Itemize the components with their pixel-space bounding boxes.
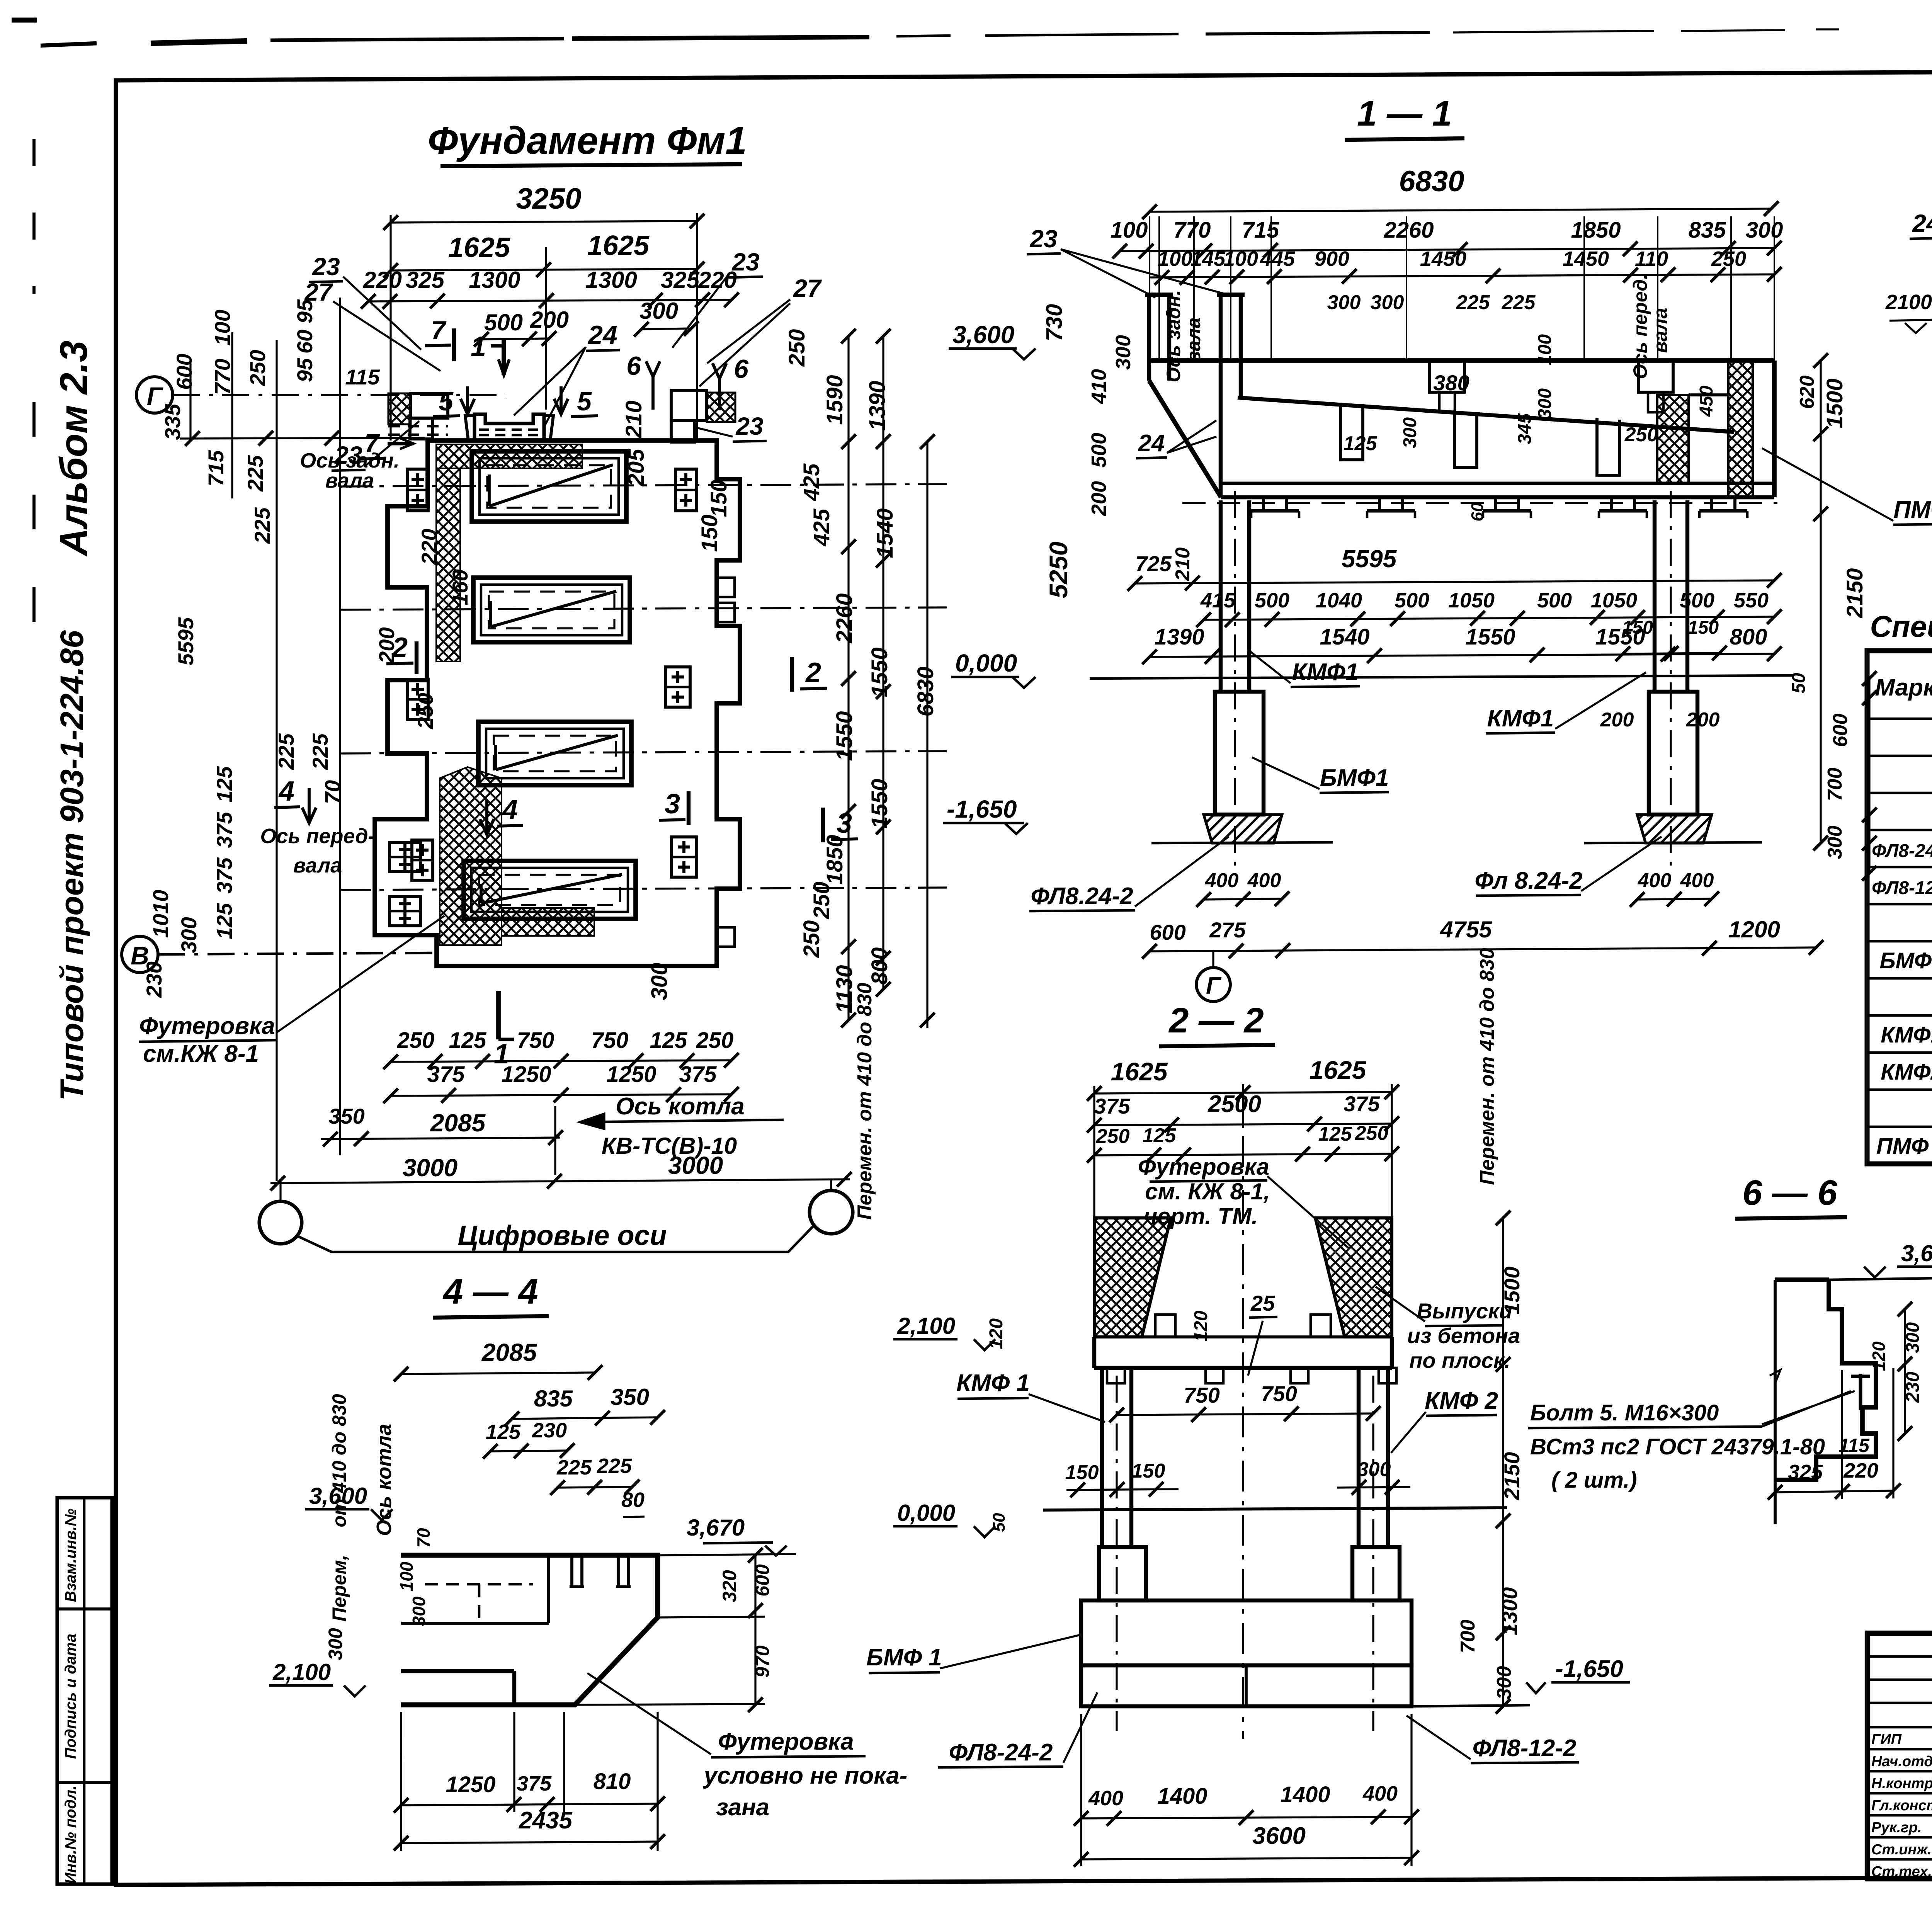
svg-text:115: 115 xyxy=(1838,1435,1870,1456)
svg-text:800: 800 xyxy=(867,947,892,985)
svg-text:125: 125 xyxy=(650,1028,688,1053)
svg-text:300: 300 xyxy=(1357,1458,1391,1481)
svg-text:375: 375 xyxy=(427,1062,465,1087)
svg-text:725: 725 xyxy=(1135,551,1172,576)
svg-text:23: 23 xyxy=(312,253,340,281)
svg-text:( 2 шт.): ( 2 шт.) xyxy=(1551,1468,1637,1493)
svg-text:375: 375 xyxy=(212,811,236,848)
svg-text:60: 60 xyxy=(293,330,317,354)
svg-text:ФЛ8-24-2: ФЛ8-24-2 xyxy=(1872,841,1932,861)
svg-text:1625: 1625 xyxy=(1310,1056,1367,1084)
svg-text:КМФ2: КМФ2 xyxy=(1881,1060,1932,1085)
svg-text:см.КЖ 8-1: см.КЖ 8-1 xyxy=(143,1041,259,1067)
svg-text:6 — 6: 6 — 6 xyxy=(1742,1173,1837,1213)
svg-text:Ст.тех.: Ст.тех. xyxy=(1871,1864,1932,1880)
svg-text:Футеровка: Футеровка xyxy=(139,1013,275,1039)
svg-text:зана: зана xyxy=(716,1794,769,1821)
svg-text:1040: 1040 xyxy=(1316,589,1362,612)
svg-text:Нач.отд.: Нач.отд. xyxy=(1871,1753,1932,1770)
svg-text:125: 125 xyxy=(1344,432,1378,455)
svg-text:350: 350 xyxy=(328,1104,364,1128)
svg-text:1: 1 xyxy=(471,331,486,362)
svg-text:Ось перед.: Ось перед. xyxy=(1629,274,1651,379)
svg-text:2,100: 2,100 xyxy=(897,1313,955,1339)
svg-text:60: 60 xyxy=(1468,502,1487,521)
svg-text:1590: 1590 xyxy=(822,375,847,425)
svg-text:225: 225 xyxy=(1456,291,1490,314)
svg-text:1050: 1050 xyxy=(1591,589,1637,612)
svg-text:4: 4 xyxy=(502,794,518,825)
svg-text:3,670: 3,670 xyxy=(687,1515,745,1541)
svg-text:24: 24 xyxy=(587,320,617,350)
svg-text:5595: 5595 xyxy=(173,617,198,665)
svg-text:ПМФ 1: ПМФ 1 xyxy=(1876,1134,1932,1159)
svg-text:6830: 6830 xyxy=(1399,165,1464,198)
svg-text:220: 220 xyxy=(1843,1459,1878,1482)
svg-text:715: 715 xyxy=(1242,218,1280,243)
svg-text:2260: 2260 xyxy=(832,593,857,643)
svg-text:300: 300 xyxy=(1400,417,1420,448)
svg-text:425: 425 xyxy=(799,463,824,502)
svg-text:Ось перед-: Ось перед- xyxy=(260,825,375,848)
svg-text:120: 120 xyxy=(986,1318,1007,1349)
svg-text:250: 250 xyxy=(784,329,810,367)
svg-text:БМФ 1: БМФ 1 xyxy=(866,1644,942,1671)
svg-text:250: 250 xyxy=(696,1028,734,1053)
svg-text:6830: 6830 xyxy=(913,667,938,716)
svg-text:0,000: 0,000 xyxy=(897,1500,955,1526)
svg-text:300: 300 xyxy=(177,917,201,953)
svg-text:300: 300 xyxy=(1327,291,1361,314)
svg-text:Фундамент Фм1: Фундамент Фм1 xyxy=(428,119,747,162)
svg-text:550: 550 xyxy=(1734,589,1769,612)
svg-text:1250: 1250 xyxy=(446,1772,495,1797)
svg-text:300: 300 xyxy=(639,298,678,324)
svg-text:1450: 1450 xyxy=(1563,247,1609,270)
svg-text:-1,650: -1,650 xyxy=(947,795,1017,823)
svg-text:250: 250 xyxy=(1711,247,1746,270)
svg-text:120: 120 xyxy=(1869,1341,1889,1371)
svg-text:Инв.№ подл.: Инв.№ подл. xyxy=(62,1786,79,1884)
svg-text:ФЛ8-12-2: ФЛ8-12-2 xyxy=(1473,1735,1577,1762)
svg-text:275: 275 xyxy=(1209,918,1246,942)
svg-text:6: 6 xyxy=(734,354,749,384)
svg-text:345: 345 xyxy=(1515,413,1535,444)
svg-text:КМФ1: КМФ1 xyxy=(1487,705,1554,732)
svg-text:205: 205 xyxy=(624,449,649,487)
svg-text:1390: 1390 xyxy=(865,381,890,430)
svg-text:ФЛ8.24-2: ФЛ8.24-2 xyxy=(1031,883,1133,910)
svg-text:200: 200 xyxy=(1087,481,1111,516)
svg-text:750: 750 xyxy=(1184,1383,1219,1407)
svg-text:250: 250 xyxy=(1355,1122,1389,1145)
svg-text:250: 250 xyxy=(1096,1125,1130,1148)
svg-text:100: 100 xyxy=(210,310,235,345)
svg-text:100: 100 xyxy=(1535,334,1555,365)
svg-text:2: 2 xyxy=(805,657,821,688)
svg-text:200: 200 xyxy=(1686,709,1720,731)
svg-text:225: 225 xyxy=(243,455,267,492)
svg-text:КМФ 1: КМФ 1 xyxy=(956,1370,1030,1396)
svg-text:500: 500 xyxy=(1255,589,1289,612)
svg-text:810: 810 xyxy=(594,1769,631,1794)
svg-text:415: 415 xyxy=(1200,589,1236,612)
svg-text:Н.контр.: Н.контр. xyxy=(1871,1776,1932,1792)
svg-text:6: 6 xyxy=(626,351,641,381)
svg-text:425: 425 xyxy=(809,509,834,547)
svg-text:125: 125 xyxy=(449,1028,487,1053)
svg-text:7: 7 xyxy=(431,316,447,345)
svg-text:3,600: 3,600 xyxy=(1901,1240,1932,1266)
svg-text:1250: 1250 xyxy=(606,1062,656,1087)
svg-text:1550: 1550 xyxy=(867,647,892,697)
svg-text:Футеровка: Футеровка xyxy=(718,1728,854,1755)
svg-text:300: 300 xyxy=(1535,388,1555,419)
svg-text:50: 50 xyxy=(990,1513,1009,1532)
svg-text:вала: вала xyxy=(293,854,342,877)
svg-text:700: 700 xyxy=(1457,1620,1479,1653)
svg-text:3: 3 xyxy=(665,789,680,820)
svg-text:1850: 1850 xyxy=(1571,218,1621,243)
svg-text:250: 250 xyxy=(397,1028,435,1053)
svg-text:150: 150 xyxy=(1065,1461,1099,1484)
svg-text:1250: 1250 xyxy=(501,1062,551,1087)
svg-text:100: 100 xyxy=(1158,247,1192,270)
svg-text:200: 200 xyxy=(530,307,569,333)
svg-text:Цифровые оси: Цифровые оси xyxy=(457,1220,667,1251)
svg-text:230: 230 xyxy=(532,1419,567,1442)
svg-text:125: 125 xyxy=(212,903,236,939)
svg-text:1010: 1010 xyxy=(148,890,173,938)
svg-text:Ось задн.: Ось задн. xyxy=(300,449,400,472)
svg-text:2500: 2500 xyxy=(1207,1091,1261,1117)
svg-text:2: 2 xyxy=(391,632,408,663)
svg-text:100: 100 xyxy=(1223,247,1258,270)
svg-text:1300: 1300 xyxy=(585,267,637,293)
svg-text:500: 500 xyxy=(484,310,523,335)
svg-text:400: 400 xyxy=(1205,869,1239,892)
svg-text:500: 500 xyxy=(1680,589,1714,612)
svg-text:100: 100 xyxy=(1111,218,1148,243)
svg-text:1625: 1625 xyxy=(1111,1057,1168,1086)
svg-text:150: 150 xyxy=(1132,1460,1165,1482)
svg-text:500: 500 xyxy=(1395,589,1429,612)
svg-text:БМФ1: БМФ1 xyxy=(1320,765,1389,791)
svg-text:400: 400 xyxy=(1362,1782,1398,1805)
svg-text:ГИП: ГИП xyxy=(1871,1731,1902,1748)
svg-text:300: 300 xyxy=(1824,826,1846,859)
svg-text:ФЛ8-12-2: ФЛ8-12-2 xyxy=(1872,878,1932,898)
svg-text:3,600: 3,600 xyxy=(952,321,1014,349)
svg-text:Г: Г xyxy=(147,382,163,410)
svg-text:110: 110 xyxy=(1635,247,1668,270)
svg-text:1500: 1500 xyxy=(1822,378,1847,428)
svg-text:50: 50 xyxy=(1789,673,1809,694)
svg-text:500: 500 xyxy=(1537,589,1572,612)
svg-text:750: 750 xyxy=(591,1028,629,1053)
svg-text:70: 70 xyxy=(413,1528,434,1548)
svg-text:24: 24 xyxy=(1138,430,1165,457)
svg-text:1400: 1400 xyxy=(1157,1784,1207,1809)
svg-text:3600: 3600 xyxy=(1252,1823,1306,1849)
svg-text:1625: 1625 xyxy=(587,230,650,261)
svg-text:600: 600 xyxy=(1829,714,1852,747)
svg-text:КМФ1: КМФ1 xyxy=(1881,1022,1932,1048)
svg-text:750: 750 xyxy=(1261,1381,1297,1406)
svg-text:КВ-ТС(В)-10: КВ-ТС(В)-10 xyxy=(602,1133,737,1159)
svg-text:2150: 2150 xyxy=(1842,568,1867,618)
svg-text:300: 300 xyxy=(1112,335,1135,370)
svg-text:750: 750 xyxy=(517,1028,554,1053)
svg-text:835: 835 xyxy=(534,1386,573,1412)
svg-text:БМФ1: БМФ1 xyxy=(1880,948,1932,973)
svg-text:1050: 1050 xyxy=(1448,589,1495,612)
svg-text:4: 4 xyxy=(278,776,294,807)
svg-text:Ось котла: Ось котла xyxy=(616,1093,744,1120)
svg-text:250: 250 xyxy=(799,920,824,958)
svg-text:400: 400 xyxy=(1638,869,1672,892)
svg-text:150: 150 xyxy=(1688,617,1719,638)
svg-text:5250: 5250 xyxy=(1044,541,1073,598)
svg-text:Фл 8.24-2: Фл 8.24-2 xyxy=(1475,867,1582,894)
svg-text:300: 300 xyxy=(325,1628,346,1660)
svg-text:835: 835 xyxy=(1689,218,1726,243)
svg-text:3: 3 xyxy=(837,808,852,839)
svg-text:115: 115 xyxy=(345,365,380,389)
svg-text:1540: 1540 xyxy=(1320,624,1369,650)
svg-text:Подпись и дата: Подпись и дата xyxy=(62,1634,79,1759)
svg-text:Марка: Марка xyxy=(1875,674,1932,701)
svg-text:27: 27 xyxy=(793,274,822,302)
svg-text:145: 145 xyxy=(1190,247,1226,270)
svg-text:3000: 3000 xyxy=(403,1154,457,1182)
svg-text:0,000: 0,000 xyxy=(955,649,1017,677)
svg-text:325: 325 xyxy=(661,267,700,293)
svg-text:375: 375 xyxy=(679,1062,717,1087)
svg-text:2100: 2100 xyxy=(1885,291,1932,314)
svg-text:100: 100 xyxy=(396,1561,417,1591)
svg-text:2085: 2085 xyxy=(481,1338,537,1366)
svg-text:250: 250 xyxy=(809,882,834,920)
svg-text:400: 400 xyxy=(1680,869,1714,892)
svg-text:по плоск.: по плоск. xyxy=(1409,1348,1510,1372)
svg-text:КМФ1: КМФ1 xyxy=(1292,659,1359,685)
svg-text:ПМФ1: ПМФ1 xyxy=(1893,497,1932,523)
svg-text:1550: 1550 xyxy=(867,779,892,828)
svg-text:375: 375 xyxy=(1094,1094,1130,1118)
svg-text:1200: 1200 xyxy=(1728,917,1780,942)
svg-text:Перемен. от 410 до 830: Перемен. от 410 до 830 xyxy=(1476,948,1498,1185)
svg-text:300: 300 xyxy=(1371,291,1404,314)
svg-text:1390: 1390 xyxy=(1154,624,1204,650)
svg-text:1550: 1550 xyxy=(1465,624,1515,650)
svg-text:Болт 5. М16×300: Болт 5. М16×300 xyxy=(1530,1400,1719,1425)
svg-text:400: 400 xyxy=(1088,1787,1123,1810)
svg-text:1 — 1: 1 — 1 xyxy=(1357,94,1452,133)
svg-text:23: 23 xyxy=(735,412,763,440)
svg-text:Типовой проект 903-1-224.86: Типовой проект 903-1-224.86 xyxy=(54,630,90,1101)
svg-text:95: 95 xyxy=(293,358,317,382)
svg-text:1550: 1550 xyxy=(832,711,857,761)
svg-text:1400: 1400 xyxy=(1280,1782,1330,1807)
svg-text:120: 120 xyxy=(1191,1311,1211,1342)
svg-text:Взам.инв.№: Взам.инв.№ xyxy=(62,1509,79,1602)
svg-text:125: 125 xyxy=(1143,1124,1177,1147)
svg-text:225: 225 xyxy=(556,1456,592,1479)
svg-text:400: 400 xyxy=(1247,869,1281,892)
svg-text:Г: Г xyxy=(1206,973,1222,999)
svg-text:КМФ 2: КМФ 2 xyxy=(1425,1388,1498,1414)
svg-text:ВСт3 пс2 ГОСТ 24379.1-80: ВСт3 пс2 ГОСТ 24379.1-80 xyxy=(1530,1434,1825,1459)
svg-text:150: 150 xyxy=(1622,617,1653,638)
svg-text:Альбом 2.3: Альбом 2.3 xyxy=(52,340,95,557)
svg-text:600: 600 xyxy=(1150,920,1185,944)
svg-text:2,100: 2,100 xyxy=(272,1659,331,1685)
svg-text:1540: 1540 xyxy=(872,508,898,558)
svg-text:300: 300 xyxy=(1493,1666,1515,1700)
svg-text:715: 715 xyxy=(204,450,228,486)
svg-text:380: 380 xyxy=(1433,371,1469,395)
svg-text:350: 350 xyxy=(611,1384,649,1410)
svg-text:95: 95 xyxy=(293,299,317,323)
svg-text:1850: 1850 xyxy=(822,835,847,884)
svg-text:300: 300 xyxy=(1746,218,1783,243)
svg-text:225: 225 xyxy=(597,1454,632,1478)
svg-text:210: 210 xyxy=(621,401,646,439)
svg-text:250: 250 xyxy=(1624,423,1658,446)
svg-text:770: 770 xyxy=(210,359,235,395)
svg-text:300: 300 xyxy=(409,1596,429,1626)
svg-text:5: 5 xyxy=(577,387,592,416)
svg-text:225: 225 xyxy=(250,507,274,544)
svg-text:210: 210 xyxy=(1172,548,1194,582)
svg-text:Перем,: Перем, xyxy=(328,1555,350,1622)
svg-text:4 — 4: 4 — 4 xyxy=(442,1272,538,1311)
svg-text:125: 125 xyxy=(1318,1123,1352,1145)
svg-text:450: 450 xyxy=(1696,386,1717,417)
svg-text:вала: вала xyxy=(325,469,374,492)
svg-text:150: 150 xyxy=(697,515,722,552)
svg-text:Ст.инж.: Ст.инж. xyxy=(1871,1842,1932,1858)
svg-text:150: 150 xyxy=(706,480,731,517)
svg-text:770: 770 xyxy=(1173,218,1211,243)
svg-text:Рук.гр.: Рук.гр. xyxy=(1871,1820,1922,1836)
svg-text:730: 730 xyxy=(1042,304,1067,342)
svg-text:500: 500 xyxy=(1087,433,1111,468)
svg-text:800: 800 xyxy=(1730,624,1767,650)
svg-text:условно не пока-: условно не пока- xyxy=(703,1762,908,1789)
svg-text:3250: 3250 xyxy=(516,182,581,215)
svg-text:125: 125 xyxy=(486,1420,521,1444)
svg-text:Гл.конст.: Гл.конст. xyxy=(1871,1798,1932,1814)
svg-text:320: 320 xyxy=(719,1570,740,1602)
svg-text:-1,650: -1,650 xyxy=(1555,1656,1623,1682)
svg-text:220: 220 xyxy=(363,267,402,293)
svg-text:600: 600 xyxy=(172,354,196,389)
svg-text:375: 375 xyxy=(212,857,236,893)
svg-text:Футеровка: Футеровка xyxy=(1138,1154,1269,1180)
svg-text:вала: вала xyxy=(1650,308,1671,353)
svg-text:5595: 5595 xyxy=(1342,545,1397,573)
svg-text:250: 250 xyxy=(245,350,270,386)
svg-text:375: 375 xyxy=(1344,1092,1380,1116)
svg-text:23: 23 xyxy=(731,248,759,276)
svg-text:25: 25 xyxy=(1250,1291,1275,1315)
svg-text:4755: 4755 xyxy=(1440,917,1492,942)
svg-text:225: 225 xyxy=(308,733,332,770)
svg-text:225: 225 xyxy=(1502,291,1536,314)
svg-text:900: 900 xyxy=(1315,247,1349,270)
svg-text:445: 445 xyxy=(1260,247,1295,270)
svg-text:Перемен. от 410 до 830: Перемен. от 410 до 830 xyxy=(854,983,876,1220)
svg-text:Спецификация элементов на фунд: Спецификация элементов на фундамент Фм1 xyxy=(1870,609,1932,643)
svg-text:5: 5 xyxy=(439,387,454,416)
svg-text:620: 620 xyxy=(1796,376,1818,409)
svg-text:200: 200 xyxy=(1600,709,1634,731)
svg-text:В: В xyxy=(131,941,149,970)
svg-text:300: 300 xyxy=(647,963,672,1000)
svg-text:80: 80 xyxy=(621,1488,645,1512)
svg-text:3,600: 3,600 xyxy=(309,1483,367,1509)
svg-text:375: 375 xyxy=(517,1772,552,1795)
svg-text:325: 325 xyxy=(1788,1461,1823,1484)
svg-text:325: 325 xyxy=(406,267,445,293)
svg-text:2 — 2: 2 — 2 xyxy=(1168,1001,1264,1040)
svg-text:ФЛ8-24-2: ФЛ8-24-2 xyxy=(949,1739,1053,1766)
svg-text:1450: 1450 xyxy=(1420,247,1466,270)
svg-text:Выпуски: Выпуски xyxy=(1417,1299,1512,1323)
svg-text:700: 700 xyxy=(1824,768,1846,801)
svg-text:125: 125 xyxy=(212,766,236,802)
svg-text:410: 410 xyxy=(1087,369,1111,404)
svg-text:2260: 2260 xyxy=(1383,218,1434,243)
svg-text:23: 23 xyxy=(1029,225,1057,253)
svg-text:1300: 1300 xyxy=(469,267,520,293)
svg-text:24: 24 xyxy=(1912,209,1932,237)
svg-text:1625: 1625 xyxy=(448,232,510,263)
svg-text:2085: 2085 xyxy=(430,1109,486,1137)
svg-text:вала: вала xyxy=(1183,318,1204,363)
svg-text:Ось задн.: Ось задн. xyxy=(1163,290,1184,383)
